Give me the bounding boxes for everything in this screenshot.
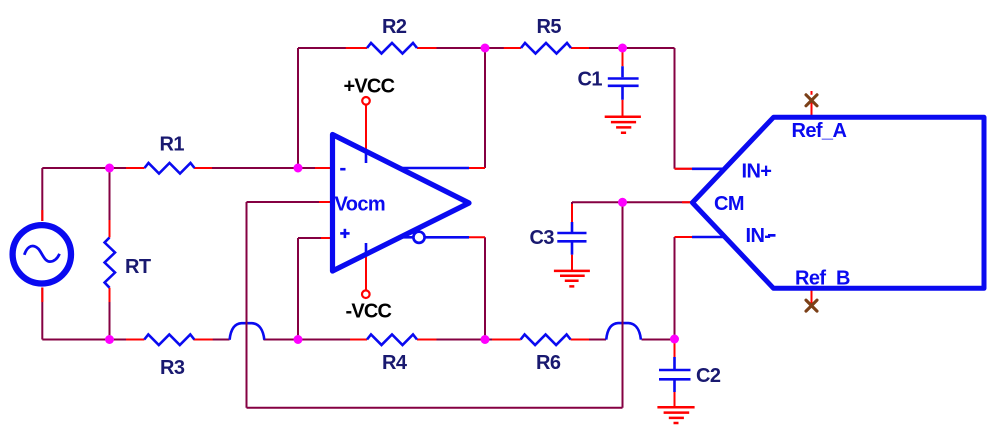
svg-text:R3: R3: [160, 357, 185, 379]
svg-text:CM: CM: [714, 193, 744, 215]
svg-text:Vocm: Vocm: [335, 194, 386, 216]
svg-text:Ref_A: Ref_A: [792, 120, 847, 142]
svg-text:R6: R6: [536, 352, 561, 374]
svg-text:Ref_B: Ref_B: [795, 268, 850, 290]
svg-text:IN+: IN+: [742, 161, 772, 183]
svg-text:R4: R4: [382, 352, 408, 374]
svg-text:C1: C1: [578, 69, 603, 91]
svg-text:+VCC: +VCC: [344, 76, 395, 98]
svg-text:C3: C3: [530, 227, 555, 249]
svg-text:R5: R5: [537, 16, 562, 38]
svg-text:R1: R1: [160, 134, 185, 156]
svg-text:C2: C2: [696, 365, 721, 387]
svg-text:-VCC: -VCC: [346, 301, 392, 323]
svg-text:IN-: IN-: [746, 225, 771, 247]
svg-text:RT: RT: [125, 256, 151, 278]
svg-text:R2: R2: [382, 16, 407, 38]
